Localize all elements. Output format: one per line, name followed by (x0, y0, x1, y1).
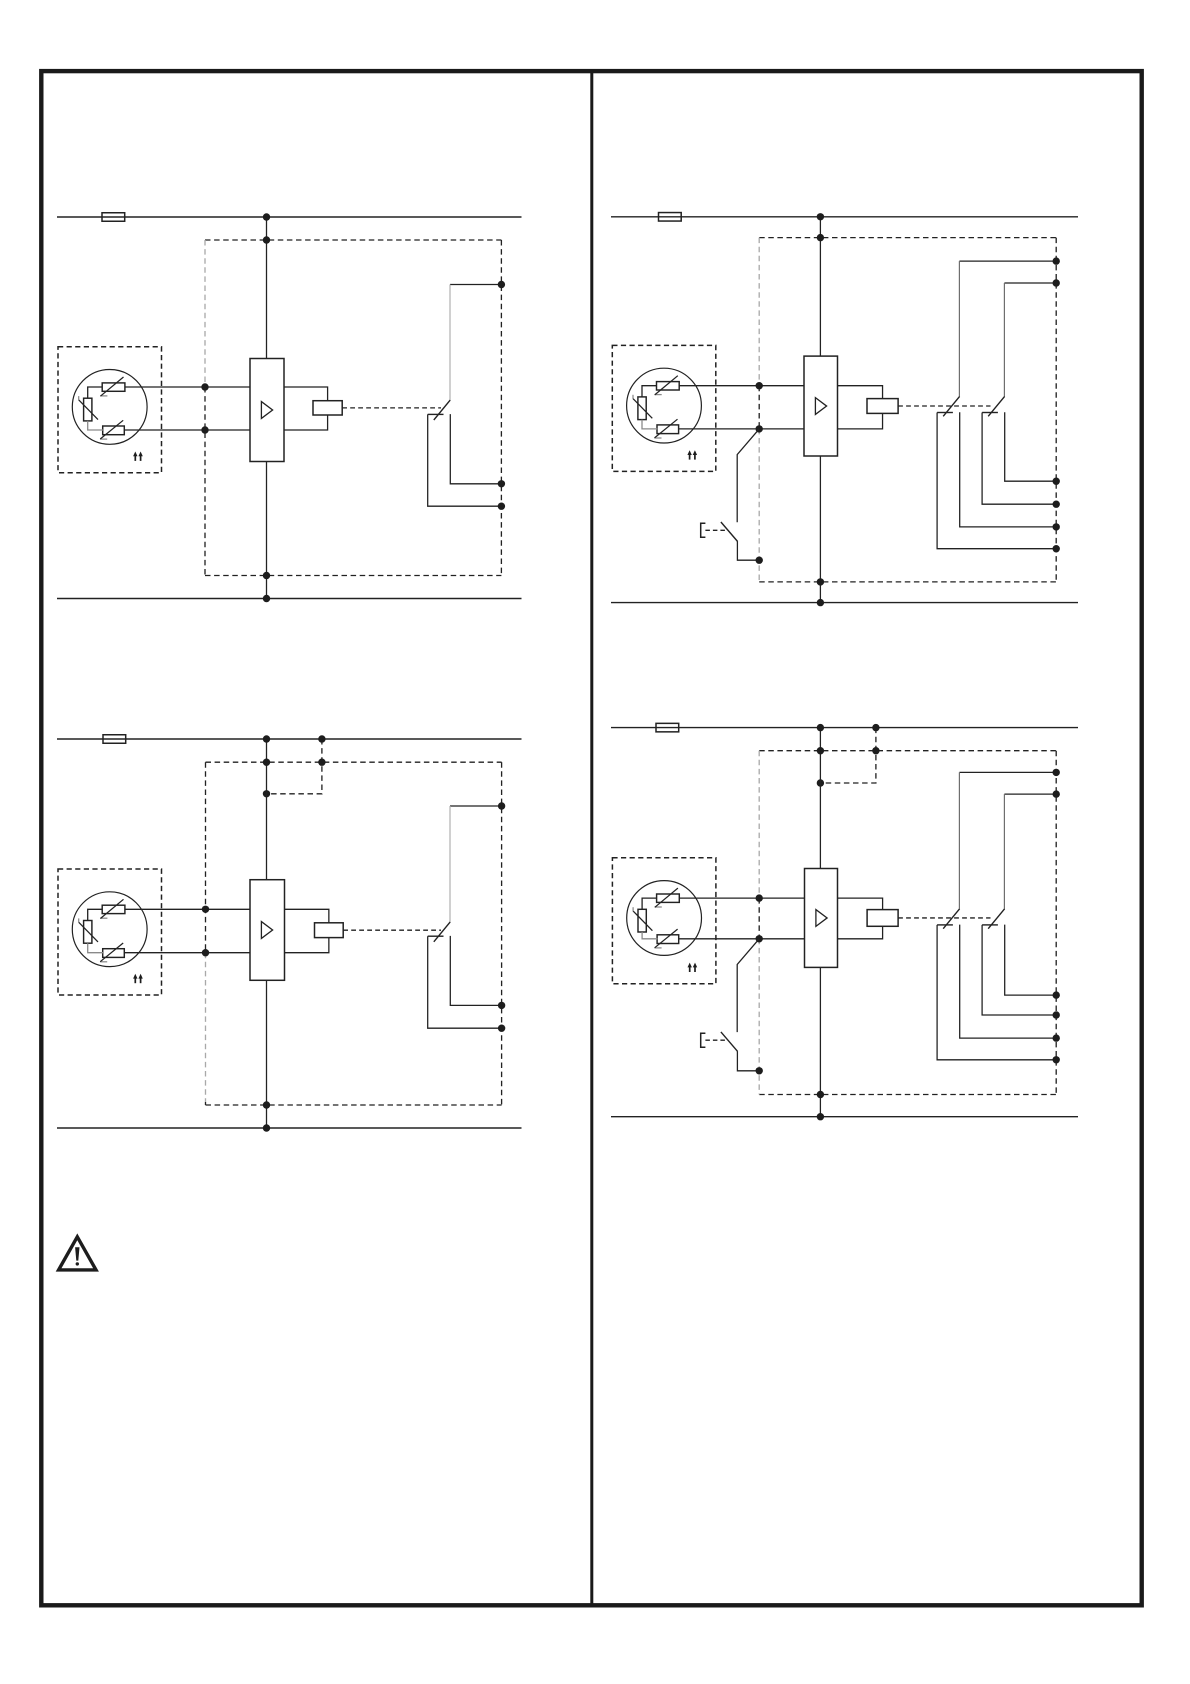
fuse C (103, 735, 126, 744)
terminal dot NC K2 B (1053, 478, 1060, 485)
sensor internal wire R1-R2 B (642, 386, 657, 397)
device outline bottom edge B (759, 581, 1056, 583)
supply rail bottom C (57, 1127, 522, 1129)
relay contact NO branch K2 B (982, 413, 1056, 505)
device outline right edge D (1055, 751, 1057, 1095)
terminal dot sensor upper A (201, 383, 208, 390)
fuse B (659, 213, 682, 222)
sensor dashed enclosure C (58, 869, 162, 995)
junction dot outline top D (817, 747, 824, 754)
reset button link from sensor wire D (737, 939, 759, 1032)
relay coil C (315, 923, 344, 938)
relay contact NO branch K1 B (937, 413, 1056, 549)
junction dot outline bottom B (817, 578, 824, 585)
terminal dot NC K1 B (1053, 523, 1060, 530)
sensor wire upper B (679, 385, 804, 387)
relay contact NC branch K2 D (1005, 925, 1056, 996)
device outline top edge B (759, 237, 1056, 239)
reset button link from sensor wire B (737, 429, 759, 522)
junction dot rail top D (817, 724, 824, 731)
relay contact blade K2 B (988, 396, 1004, 416)
vertical supply wire C (266, 739, 268, 880)
relay contact common feed K1 D (959, 771, 1056, 773)
thermistor R2 C (84, 921, 92, 944)
terminal dot common K1 D (1053, 769, 1060, 776)
junction dot rail top A (263, 213, 270, 220)
supply rail bottom A (57, 598, 522, 600)
device outline right edge B (1055, 238, 1057, 582)
junction dot outline bottom D (817, 1091, 824, 1098)
terminal dot common K1 C (498, 802, 505, 809)
supply rail bottom D (611, 1116, 1078, 1118)
amplifier output loop D (838, 898, 883, 939)
reset button blade B (721, 522, 738, 542)
device outline bottom edge C (206, 1104, 502, 1106)
amplifier block C (250, 880, 285, 981)
supply rail top B (611, 216, 1078, 218)
relay contact NC branch K1 D (960, 925, 1056, 1039)
thermistor R2 B (638, 397, 646, 420)
junction dot outline top A (263, 236, 270, 243)
relay contact NC branch K1 C (450, 936, 501, 1006)
sensor wire lower B (679, 428, 804, 430)
terminal dot NC K1 A (498, 480, 505, 487)
device outline left edge A (204, 240, 206, 387)
branch junction dot on outline D (872, 747, 879, 754)
sensor wire lower A (125, 429, 250, 431)
coil to contact dashed link D (898, 917, 990, 919)
device outline bottom edge D (759, 1094, 1056, 1096)
relay contact NO branch K1 D (937, 925, 1056, 1060)
vertical supply wire D (819, 728, 821, 869)
junction dot rail top C (263, 735, 270, 742)
amplifier block A (250, 359, 284, 462)
relay contact common feed K1 C (450, 805, 502, 807)
device outline left edge B (758, 238, 760, 386)
reset button actuator B (701, 523, 706, 537)
sensor internal wire R2-R3 C (88, 943, 103, 953)
terminal dot NO K1 C (498, 1025, 505, 1032)
reset button junction dot D (756, 1067, 763, 1074)
supply rail top A (57, 216, 522, 218)
terminal dot sensor lower C (202, 949, 209, 956)
sensor wire upper A (125, 386, 250, 388)
junction dot rail top B (817, 213, 824, 220)
supply rail top D (611, 727, 1078, 729)
sensor wire lower D (679, 938, 805, 940)
thermistor R2 A (84, 398, 92, 421)
temperature rise arrows B (689, 453, 691, 459)
coil to contact dashed link C (343, 929, 441, 931)
supply rail bottom B (611, 602, 1078, 604)
relay contact common feed K1 B (959, 260, 1056, 262)
reset button actuator D (701, 1033, 706, 1047)
branch junction dot on wire C (263, 790, 270, 797)
relay contact common feed K2 D (1004, 793, 1056, 795)
terminal dot NC K1 C (498, 1002, 505, 1009)
junction dot outline bottom C (263, 1101, 270, 1108)
sensor internal wire R2-R3 D (642, 932, 657, 939)
fuse D (656, 723, 679, 732)
terminal dot sensor upper B (756, 382, 763, 389)
sensor internal wire R1-R2 A (88, 387, 103, 398)
reset button junction dot B (756, 557, 763, 564)
relay contact NO branch K2 D (982, 925, 1056, 1015)
terminal dot NO K1 A (498, 503, 505, 510)
fuse A (102, 213, 125, 222)
branch junction dot on rail D (872, 724, 879, 731)
relay contact NC branch K2 B (1005, 412, 1056, 481)
junction dot rail bottom B (817, 599, 824, 606)
sensor dashed enclosure D (612, 858, 716, 984)
warning triangle (59, 1237, 96, 1270)
thermistor R3 A (103, 426, 125, 435)
sensor wire lower C (125, 952, 250, 954)
device outline top edge D (759, 750, 1056, 752)
relay contact fixed bar K1 D (937, 924, 953, 926)
device outline left edge D (758, 751, 760, 898)
relay contact blade K1 A (434, 400, 450, 420)
terminal dot sensor upper C (202, 906, 209, 913)
relay contact common feed K1 A (450, 284, 501, 286)
reset button lower link B (737, 541, 759, 560)
junction dot rail bottom A (263, 595, 270, 602)
relay contact NO branch K1 C (428, 936, 502, 1028)
coil to contact dashed link B (898, 405, 990, 407)
sensor internal wire R1-R2 C (88, 909, 103, 920)
terminal dot NO K2 B (1053, 501, 1060, 508)
thermistor R3 B (657, 425, 679, 434)
terminal dot common K2 D (1053, 790, 1060, 797)
thermistor R1 D (657, 894, 680, 902)
sensor internal wire R2-R3 A (88, 421, 103, 430)
dashed supply branch D (820, 728, 876, 783)
sensor dashed enclosure A (58, 347, 162, 473)
amplifier block D (805, 869, 838, 968)
branch junction dot on rail C (318, 735, 325, 742)
terminal dot NO K1 D (1053, 1056, 1060, 1063)
vertical supply wire B (819, 217, 821, 356)
relay contact fixed bar K1 B (937, 412, 953, 414)
sensor internal wire R2-R3 B (642, 420, 657, 429)
relay contact common feed K2 B (1004, 282, 1056, 284)
relay coil A (313, 401, 342, 415)
relay contact blade K1 C (434, 922, 450, 942)
terminal dot sensor lower D (756, 935, 763, 942)
temperature rise arrows C (134, 977, 136, 983)
reset button blade D (721, 1032, 738, 1052)
device outline right edge C (501, 762, 503, 1105)
temperature rise arrows D (689, 966, 691, 972)
relay contact NC branch K1 B (960, 412, 1056, 527)
device outline top edge C (206, 761, 502, 763)
relay coil D (867, 910, 898, 927)
relay contact blade K1 B (943, 396, 959, 416)
thermistor R2 D (638, 909, 646, 932)
thermistor R3 C (103, 949, 125, 958)
amplifier output loop B (838, 386, 883, 429)
relay contact fixed bar K2 D (982, 924, 998, 926)
relay contact fixed bar K1 A (428, 413, 444, 415)
device outline top edge A (205, 239, 501, 241)
sensor internal wire R1-R2 D (642, 898, 657, 909)
relay contact blade K2 D (988, 909, 1004, 929)
motor winding circle A (72, 370, 147, 445)
thermistor R1 A (102, 383, 125, 391)
terminal dot sensor lower B (756, 425, 763, 432)
amplifier output loop A (284, 387, 328, 430)
terminal dot sensor lower A (201, 426, 208, 433)
terminal dot common K2 B (1053, 279, 1060, 286)
amplifier block B (804, 356, 838, 456)
terminal dot NC K2 D (1053, 991, 1060, 998)
relay contact NC branch K1 A (450, 414, 501, 484)
amplifier output loop C (285, 909, 329, 952)
terminal dot NO K2 D (1053, 1011, 1060, 1018)
sensor wire upper C (125, 908, 250, 910)
terminal dot NC K1 D (1053, 1034, 1060, 1041)
junction dot rail bottom D (817, 1113, 824, 1120)
branch junction dot on wire D (817, 779, 824, 786)
motor winding circle C (72, 892, 147, 967)
junction dot outline top C (263, 759, 270, 766)
terminal dot common K1 B (1053, 257, 1060, 264)
sensor dashed enclosure B (612, 345, 716, 471)
terminal dot NO K1 B (1053, 545, 1060, 552)
junction dot rail bottom C (263, 1124, 270, 1131)
relay contact fixed bar K1 C (428, 935, 444, 937)
junction dot outline top B (817, 234, 824, 241)
relay contact fixed bar K2 B (982, 412, 998, 414)
terminal dot sensor upper D (756, 894, 763, 901)
thermistor R3 D (657, 935, 679, 944)
motor winding circle D (627, 881, 702, 956)
branch junction dot on outline C (318, 759, 325, 766)
supply rail top C (57, 738, 522, 740)
device outline left edge C (205, 762, 207, 953)
relay contact NO branch K1 A (428, 414, 502, 506)
reset button lower link D (737, 1051, 759, 1071)
relay coil B (867, 399, 898, 414)
relay contact blade K1 D (943, 909, 959, 929)
dashed supply branch C (267, 739, 322, 794)
device outline right edge A (500, 240, 502, 576)
device outline bottom edge A (205, 575, 501, 577)
coil to contact dashed link A (342, 407, 441, 409)
sensor wire upper D (679, 897, 805, 899)
terminal dot common K1 A (498, 281, 505, 288)
temperature rise arrows A (134, 455, 136, 461)
thermistor R1 B (657, 382, 680, 390)
motor winding circle B (627, 368, 702, 443)
vertical supply wire A (266, 217, 268, 359)
junction dot outline bottom A (263, 572, 270, 579)
thermistor R1 C (102, 905, 125, 913)
